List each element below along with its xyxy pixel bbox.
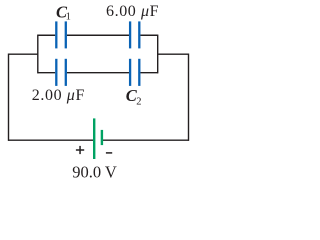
capacitor 6.00 uF (top right) plates [130,21,139,48]
wire: left bus vertical joining branches [37,35,39,74]
wire: top branch left lead [38,34,55,36]
battery 90.0 V: long positive plate [93,118,95,159]
wire: left outer vertical [8,54,10,141]
wire: bottom left to battery positive plate [9,139,94,141]
wire: top branch right lead [140,34,157,36]
wire: right outer vertical [188,54,190,141]
svg-text:1: 1 [66,12,71,23]
capacitor C1 (top left) plates [56,21,66,48]
svg-text:6.00 μF: 6.00 μF [106,3,159,20]
battery polarity minus sign [106,152,112,154]
battery polarity plus sign [76,146,84,154]
wire: right connector horizontal [158,53,189,55]
wire: top branch middle segment [67,34,129,36]
wire: bottom branch middle segment [67,72,129,74]
capacitor C2 (bottom right) plates [130,59,139,86]
svg-text:2: 2 [136,97,141,108]
battery 90.0 V: short negative plate [101,130,103,145]
svg-text:2.00 μF: 2.00 μF [32,87,85,104]
svg-text:90.0 V: 90.0 V [72,163,117,182]
wire: left connector horizontal [9,53,38,55]
wire: bottom branch left lead [38,72,55,74]
wire: bottom right from battery negative plate [103,139,189,141]
capacitor 2.00 uF (bottom left) plates [56,59,66,86]
wire: bottom branch right lead [140,72,157,74]
wire: right bus vertical joining branches [157,35,159,74]
